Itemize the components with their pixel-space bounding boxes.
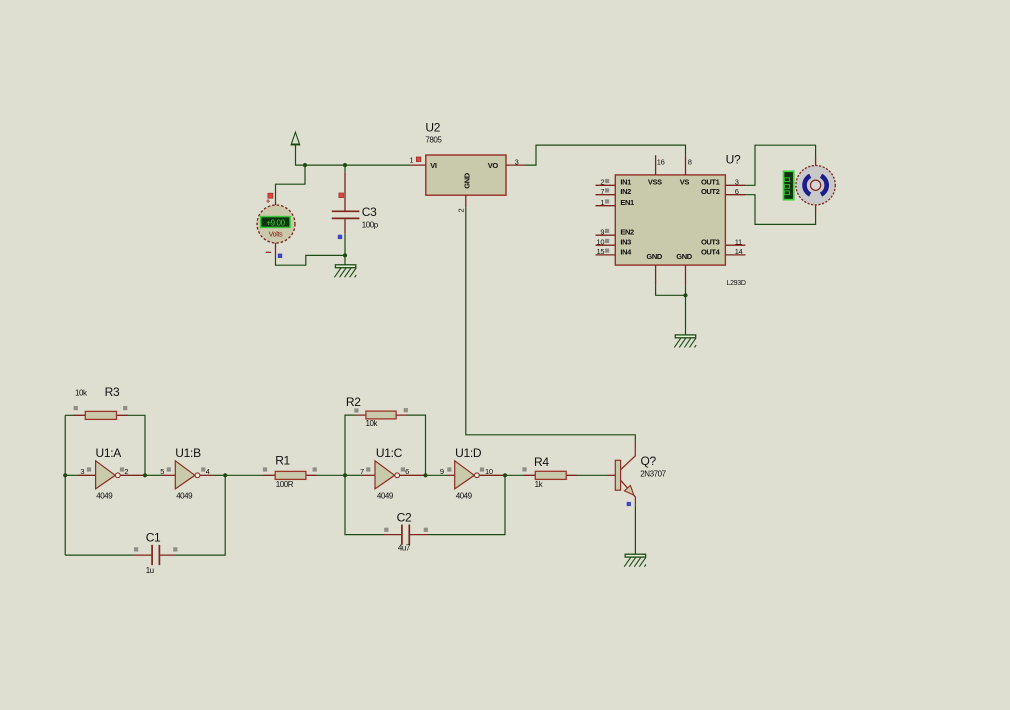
motor brush arc right bbox=[821, 176, 827, 195]
resistor R4 body bbox=[535, 471, 566, 479]
node junction left column bbox=[63, 473, 67, 477]
node junction R1 right bbox=[343, 473, 347, 477]
svg-text:2N3707: 2N3707 bbox=[640, 469, 666, 478]
C2 grey markers bbox=[384, 528, 388, 532]
motor rpm display bbox=[784, 171, 794, 199]
node junction U1:B out bbox=[223, 473, 227, 477]
R3 grey markers bbox=[74, 406, 78, 410]
node junction U1:C out bbox=[423, 473, 427, 477]
wire left column bbox=[64, 415, 66, 555]
wire R3 left bbox=[65, 414, 73, 416]
node junction at C3 top bbox=[343, 163, 347, 167]
U2 pin3 stub bbox=[506, 164, 526, 166]
capacitor C1 stubs bbox=[134, 554, 177, 556]
svg-text:16: 16 bbox=[657, 157, 665, 166]
svg-text:U1:D: U1:D bbox=[455, 446, 482, 460]
battery BAT1 pin stubs bbox=[275, 201, 277, 255]
svg-text:R3: R3 bbox=[105, 385, 120, 399]
svg-text:EN1: EN1 bbox=[620, 198, 634, 207]
svg-text:4049: 4049 bbox=[456, 492, 473, 501]
regulator U2 7805 body bbox=[426, 155, 506, 195]
motor U? body bbox=[796, 166, 835, 205]
U1:A output stub bbox=[120, 474, 145, 476]
U1:A bubble bbox=[115, 473, 120, 478]
svg-text:10k: 10k bbox=[75, 388, 88, 397]
resistor R1 body bbox=[275, 471, 306, 479]
svg-text:11: 11 bbox=[735, 237, 742, 246]
U1:B output grey marker bbox=[201, 467, 205, 471]
U1:D bubble bbox=[475, 473, 480, 478]
L293D bottom pin stubs bbox=[656, 265, 686, 285]
C1 grey markers bbox=[134, 547, 138, 551]
motor shaft circle bbox=[811, 180, 821, 190]
svg-text:VS: VS bbox=[680, 178, 690, 187]
U1:B output stub bbox=[200, 474, 214, 476]
transistor Q? base bar bbox=[615, 460, 620, 490]
svg-text:2: 2 bbox=[124, 467, 128, 476]
svg-text:4u7: 4u7 bbox=[398, 544, 411, 553]
transistor Q? emitter bbox=[621, 481, 636, 506]
svg-text:Q?: Q? bbox=[641, 454, 657, 468]
transistor Q? emitter arrow bbox=[624, 485, 633, 495]
wire U2 VO to L293D VS bbox=[526, 145, 686, 165]
svg-text:10: 10 bbox=[485, 467, 493, 476]
svg-text:IN2: IN2 bbox=[620, 187, 631, 196]
resistor R3 stubs bbox=[74, 414, 129, 416]
svg-text:10: 10 bbox=[597, 237, 605, 246]
wire U2 GND down to transistor collector bbox=[466, 207, 636, 441]
inverter U1:A body bbox=[96, 461, 116, 489]
svg-text:7: 7 bbox=[600, 187, 604, 196]
wire C1 loop bbox=[65, 475, 225, 555]
node junction C3 ground bbox=[343, 253, 347, 257]
svg-text:7: 7 bbox=[360, 467, 364, 476]
ground symbol top bbox=[334, 265, 356, 278]
capacitor C1 plates bbox=[152, 545, 159, 565]
U1:C input grey marker bbox=[366, 467, 370, 471]
svg-text:OUT4: OUT4 bbox=[701, 247, 721, 256]
svg-text:2: 2 bbox=[600, 178, 604, 187]
svg-text:2: 2 bbox=[456, 209, 465, 213]
svg-text:1u: 1u bbox=[146, 566, 154, 575]
battery blue terminal marker bbox=[278, 254, 282, 258]
resistor R2 stubs bbox=[355, 414, 407, 416]
L293D inside labels bbox=[620, 178, 720, 261]
svg-text:L293D: L293D bbox=[727, 280, 746, 287]
battery red terminal marker bbox=[268, 193, 273, 198]
L293D right pin stubs bbox=[725, 185, 745, 255]
resistor R3 body bbox=[85, 411, 116, 419]
svg-text:14: 14 bbox=[735, 247, 743, 256]
svg-text:1: 1 bbox=[410, 155, 414, 164]
svg-text:R1: R1 bbox=[275, 454, 290, 468]
svg-text:+9.00: +9.00 bbox=[266, 219, 285, 228]
wire to R4 bbox=[505, 474, 524, 476]
ground symbol L293D bbox=[674, 335, 696, 348]
svg-text:15: 15 bbox=[597, 247, 605, 256]
svg-text:100R: 100R bbox=[276, 480, 294, 489]
U1:D output stub bbox=[479, 474, 505, 476]
transistor Q? base stub bbox=[608, 474, 616, 476]
capacitor C2 plates bbox=[402, 525, 409, 545]
resistor R2 body bbox=[366, 411, 396, 419]
resistor R4 stubs bbox=[524, 474, 577, 476]
U1:C output stub bbox=[400, 474, 426, 476]
capacitor C3 plates bbox=[332, 211, 360, 218]
U2 pin1 red marker bbox=[416, 157, 421, 162]
svg-text:Volts: Volts bbox=[269, 232, 283, 239]
svg-text:VSS: VSS bbox=[648, 178, 662, 187]
U2 pin2 stub bbox=[465, 195, 467, 207]
svg-text:3: 3 bbox=[515, 158, 519, 167]
svg-text:8: 8 bbox=[688, 157, 692, 166]
battery voltage display bbox=[261, 217, 290, 228]
L293D top pin stubs 16 8 bbox=[656, 155, 686, 175]
svg-text:4049: 4049 bbox=[176, 492, 193, 501]
U1:D input grey marker bbox=[447, 467, 451, 471]
svg-text:U2: U2 bbox=[425, 120, 440, 134]
wire U1:B input bbox=[145, 474, 161, 476]
svg-text:IN3: IN3 bbox=[620, 238, 631, 247]
svg-text:OUT2: OUT2 bbox=[701, 187, 720, 196]
U1:B input grey marker bbox=[167, 467, 171, 471]
L293D left pin numbers bbox=[597, 178, 605, 257]
C3 blue marker bbox=[338, 235, 342, 239]
svg-text:U1:C: U1:C bbox=[376, 446, 403, 460]
svg-text:IN4: IN4 bbox=[620, 247, 632, 256]
svg-text:C3: C3 bbox=[362, 205, 377, 219]
svg-text:U1:B: U1:B bbox=[175, 446, 201, 460]
node junction GND pins bbox=[683, 293, 687, 297]
svg-text:R4: R4 bbox=[534, 455, 549, 469]
svg-text:IN1: IN1 bbox=[620, 178, 631, 187]
svg-text:1: 1 bbox=[600, 198, 604, 207]
inverter U1:B body bbox=[175, 461, 195, 489]
wire L293D GND pins join bbox=[656, 285, 686, 335]
svg-text:C2: C2 bbox=[397, 511, 412, 525]
capacitor C3 pin stubs bbox=[344, 172, 346, 234]
R4 grey marker bbox=[522, 467, 526, 471]
svg-text:5: 5 bbox=[160, 467, 164, 476]
svg-text:7805: 7805 bbox=[425, 135, 442, 144]
wire R1 to node bbox=[317, 474, 346, 476]
wire R3 right down bbox=[128, 415, 145, 475]
node junction U1:D out bbox=[503, 473, 507, 477]
svg-text:GND: GND bbox=[646, 252, 662, 261]
wire battery negative bbox=[276, 255, 346, 265]
svg-text:C1: C1 bbox=[146, 530, 161, 544]
svg-text:EN2: EN2 bbox=[620, 228, 634, 237]
svg-text:6: 6 bbox=[735, 187, 739, 196]
wire C3 bottom to ground bbox=[344, 234, 346, 265]
node junction U1:A out bbox=[143, 473, 147, 477]
svg-text:U?: U? bbox=[726, 153, 741, 167]
C3 red marker bbox=[339, 193, 344, 198]
power symbol VCC arrow bbox=[291, 132, 301, 145]
svg-text:4049: 4049 bbox=[96, 492, 113, 501]
wire to R1 bbox=[225, 474, 263, 476]
wire OUT2 to motor bottom bbox=[745, 195, 815, 225]
svg-text:OUT1: OUT1 bbox=[701, 178, 720, 187]
U1:A input grey marker bbox=[87, 467, 91, 471]
transistor Q? collector bbox=[621, 441, 635, 469]
U1:C output grey marker bbox=[401, 467, 405, 471]
svg-text:9: 9 bbox=[600, 227, 604, 236]
svg-text:GND: GND bbox=[676, 252, 692, 261]
U1:C bubble bbox=[395, 473, 400, 478]
wire C3 top bbox=[344, 165, 346, 172]
resistor R1 stubs bbox=[264, 474, 317, 476]
svg-text:4049: 4049 bbox=[377, 492, 394, 501]
L293D U3 body bbox=[615, 175, 725, 265]
wire U1:C input bbox=[345, 474, 361, 476]
Q? blue marker bbox=[627, 502, 631, 506]
ground symbol transistor bbox=[624, 554, 646, 567]
wire U1:D input bbox=[426, 474, 448, 476]
capacitor C2 stubs bbox=[384, 534, 428, 536]
battery BAT1 body bbox=[257, 205, 295, 243]
svg-text:U1:A: U1:A bbox=[96, 446, 122, 460]
svg-text:3: 3 bbox=[735, 178, 739, 187]
wire C2 loop bbox=[345, 475, 505, 534]
motor pin stubs bbox=[815, 156, 817, 215]
svg-text:VI: VI bbox=[430, 161, 437, 170]
wire power rail top bbox=[296, 145, 410, 165]
motor display digits bbox=[784, 178, 789, 195]
R2 grey markers bbox=[354, 408, 358, 412]
U1:D output grey marker bbox=[480, 467, 484, 471]
U1:B bubble bbox=[195, 473, 200, 478]
U1:A output grey marker bbox=[120, 467, 124, 471]
svg-text:R2: R2 bbox=[346, 395, 361, 409]
battery minus sign bbox=[266, 251, 271, 253]
node junction at power arrow bbox=[303, 163, 307, 167]
R1 grey markers bbox=[263, 467, 267, 471]
svg-text:GND: GND bbox=[462, 172, 471, 188]
svg-text:9: 9 bbox=[440, 467, 444, 476]
svg-text:100p: 100p bbox=[362, 221, 379, 230]
wire battery positive bbox=[276, 165, 306, 201]
L293D left pin stubs bbox=[596, 185, 616, 255]
svg-text:OUT3: OUT3 bbox=[701, 238, 720, 247]
regulator U2 pin1 stub bbox=[410, 164, 426, 166]
svg-text:6: 6 bbox=[405, 467, 409, 476]
L293D right pin numbers bbox=[735, 178, 743, 256]
motor brush arc left bbox=[804, 176, 810, 195]
svg-text:10k: 10k bbox=[366, 419, 379, 428]
inverter U1:A input stub bbox=[65, 474, 78, 476]
wire emitter to ground bbox=[634, 506, 636, 555]
wire R4 to transistor base bbox=[577, 474, 608, 476]
svg-text:4: 4 bbox=[206, 467, 210, 476]
wire OUT1 to motor top bbox=[745, 145, 815, 185]
wire R2 left column bbox=[345, 415, 355, 475]
wire R2 right down bbox=[407, 415, 426, 475]
svg-text:VO: VO bbox=[488, 161, 499, 170]
svg-text:3: 3 bbox=[80, 467, 84, 476]
L293D left pin grey markers bbox=[605, 179, 609, 253]
inverter U1:C body bbox=[375, 461, 395, 489]
inverter U1:D body bbox=[455, 461, 475, 489]
